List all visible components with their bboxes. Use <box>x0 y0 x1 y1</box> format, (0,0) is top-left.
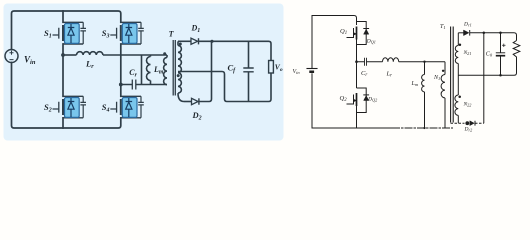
switch S4 <box>110 96 144 118</box>
diode D2 <box>184 41 212 104</box>
source Vin <box>5 50 18 63</box>
transformer primary N1 <box>441 62 445 128</box>
transformer T primary <box>164 55 167 85</box>
body diode DQ1 <box>357 22 370 45</box>
switch S3 <box>110 22 144 44</box>
capacitor C0 <box>496 33 506 76</box>
inductor Lr <box>383 58 446 62</box>
top rail dots <box>483 32 486 35</box>
svg-text:DQ2: DQ2 <box>367 97 377 103</box>
load Vo <box>269 61 274 74</box>
svg-text:Lm: Lm <box>411 81 419 87</box>
switch S1 <box>53 22 87 44</box>
wire leg bottom <box>356 106 358 128</box>
transistor Q2 <box>347 93 357 106</box>
wire bottom rail <box>12 63 121 129</box>
svg-text:N22: N22 <box>463 102 472 108</box>
N21 dot <box>459 43 462 46</box>
body diode DQ2 <box>357 88 370 113</box>
D1 cathode junction dot <box>210 40 213 43</box>
wire leg2 <box>120 44 122 96</box>
switch S2 <box>53 96 87 118</box>
svg-text:DQ1: DQ1 <box>366 38 376 44</box>
wire leg1 <box>62 11 64 128</box>
capacitor Cr <box>357 58 383 66</box>
primary dot <box>163 52 166 55</box>
svg-text:Dr2: Dr2 <box>464 126 473 132</box>
primary dot <box>442 70 444 72</box>
resistor R load <box>513 41 520 74</box>
N22 dot <box>458 95 461 98</box>
top rail wire <box>312 16 357 25</box>
bottom rail wire <box>312 127 393 129</box>
inductor Lr <box>63 52 167 55</box>
node B dot <box>119 83 123 87</box>
diode D1 <box>178 38 271 60</box>
C0 bottom dot <box>499 74 502 77</box>
svg-text:N1: N1 <box>433 75 440 81</box>
wire Lm loop left side <box>141 55 143 85</box>
diode Dr2 <box>451 121 484 126</box>
bottom rail dashed wire <box>393 127 453 129</box>
center tap wire <box>178 72 249 102</box>
transistor Q1 <box>347 27 357 40</box>
capacitor Cf <box>243 41 253 101</box>
transformer T secondary <box>178 41 184 101</box>
output bottom rail <box>458 57 516 75</box>
svg-text:T1: T1 <box>440 24 446 30</box>
secondary top dot <box>179 43 182 46</box>
wire leg mid <box>356 40 358 89</box>
secondary winding N22 <box>455 95 458 123</box>
inductor Lm <box>422 62 425 128</box>
output bottom rail <box>249 73 272 102</box>
svg-text:Vin: Vin <box>293 69 301 75</box>
secondary lower dot <box>177 74 180 77</box>
wire top rail <box>12 11 121 50</box>
diode Dr1 <box>458 30 516 41</box>
left rail wire <box>311 16 313 129</box>
Dr2 junction dot <box>465 121 469 125</box>
node A dot <box>61 53 65 57</box>
battery Vin <box>307 68 317 70</box>
inductor Lm <box>147 55 151 85</box>
svg-text:N21: N21 <box>463 50 472 56</box>
svg-text:C0: C0 <box>486 51 493 57</box>
capacitor Cr <box>121 80 167 90</box>
secondary winding N21 <box>455 33 458 95</box>
wire Dr2 return vertical <box>483 33 485 123</box>
left panel background <box>4 4 284 141</box>
transformer core <box>173 40 175 96</box>
svg-text:Dr1: Dr1 <box>463 22 472 28</box>
midpoint dot <box>355 60 358 63</box>
transformer core T1 <box>451 27 454 123</box>
